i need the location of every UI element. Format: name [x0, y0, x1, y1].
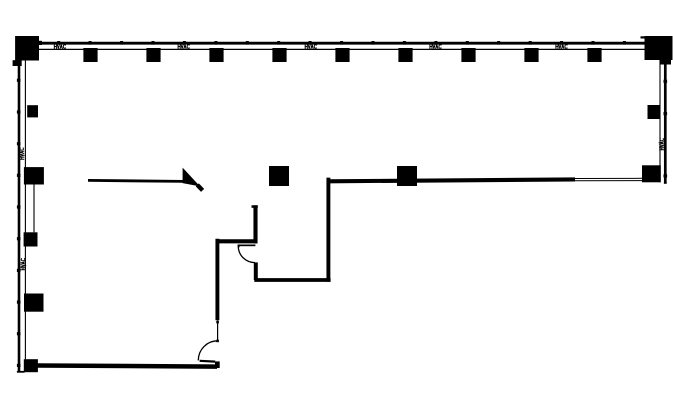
HVAC label right — [660, 139, 664, 150]
door D2 hinge tab — [238, 245, 240, 248]
left wall bottom cap — [17, 371, 25, 373]
interior wall W7 thin extension line a — [575, 177, 642, 179]
HVAC label left 1 — [20, 148, 24, 159]
interior wall W4 vertical lower — [254, 262, 258, 280]
left wall ticks — [17, 79, 21, 367]
right wall outer line foot — [664, 182, 667, 184]
top-left corner column — [15, 36, 39, 61]
interior wall W6 room right vertical — [326, 178, 330, 282]
right wall ticks — [664, 80, 668, 178]
bottom wall door-side end cap — [215, 361, 220, 368]
right wall outer line — [664, 60, 667, 183]
left wall outer line — [18, 61, 21, 372]
top-right corner column — [645, 36, 673, 60]
HVAC label left 2 — [21, 259, 25, 270]
right wall column R1 — [648, 105, 661, 119]
top wall column T8 — [524, 48, 538, 62]
top wall column T9 — [587, 48, 601, 62]
left wall column L1 — [27, 105, 38, 117]
door D1 leaf — [217, 321, 219, 342]
HVAC label top 1 — [54, 45, 65, 49]
left wall column L2 — [24, 167, 44, 184]
left wall inner line — [24, 61, 26, 360]
duct shaft line (between L2 and L3) — [33, 185, 35, 233]
top wall column T1 — [83, 48, 97, 62]
interior wall W3 vertical upper — [253, 205, 257, 243]
interior wall W3 top cap — [252, 205, 258, 208]
left wall column L3 — [24, 232, 38, 246]
top wall column T7 — [461, 48, 475, 62]
interior wall W7 thin extension line b — [575, 180, 642, 182]
north arrow foot — [197, 185, 202, 191]
right wall column R2 — [642, 165, 661, 182]
left wall top end nub — [13, 60, 22, 66]
top wall column T5 — [335, 48, 349, 62]
door D1 swing arc — [198, 341, 217, 361]
column on wall W7 — [397, 166, 417, 186]
door D2 leaf bar — [238, 245, 256, 247]
top wall column T3 — [209, 48, 223, 62]
bottom exterior wall — [37, 366, 217, 367]
top exterior wall inner line — [39, 48, 649, 50]
left wall column L4 — [24, 294, 44, 312]
north arrow shaft — [88, 180, 184, 181]
top wall column T2 — [146, 48, 160, 62]
left wall column L5 — [24, 359, 38, 372]
HVAC label top 3 — [305, 45, 316, 49]
interior wall W1 vertical (above door D1) — [215, 239, 219, 321]
top wall column T6 — [398, 48, 412, 62]
top wall column T4 — [272, 48, 286, 62]
top wall joint ticks — [57, 41, 626, 45]
HVAC label top 5 — [556, 45, 567, 49]
north arrow head — [183, 168, 200, 187]
HVAC label top 2 — [178, 45, 189, 49]
top exterior wall outer line — [40, 42, 649, 45]
interior wall W7 room top thick — [327, 179, 575, 181]
interior wall W5 room bottom — [254, 278, 330, 282]
right wall inner line — [659, 60, 661, 182]
door D1 threshold — [200, 360, 216, 363]
HVAC label top 4 — [430, 45, 441, 49]
interior wall W2 horizontal — [216, 239, 258, 243]
door D2 swing arc — [238, 247, 255, 263]
free-standing interior column — [269, 166, 289, 186]
